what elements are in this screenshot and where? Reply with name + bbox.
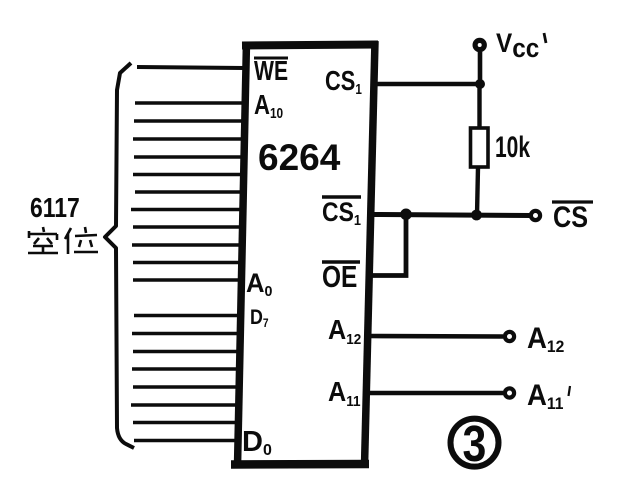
wire bus D4 — [132, 367, 240, 371]
wire A11 — [369, 391, 503, 396]
junction dot CS1/resistor top node — [475, 79, 485, 89]
pin label WE (overline) — [254, 56, 288, 86]
label empty-slot (Chinese 空位) — [28, 227, 98, 254]
wire bus A9 — [134, 119, 244, 123]
wire bus D6 — [132, 332, 241, 336]
wire bus A1 — [133, 261, 242, 265]
IC U1 6264 body fill — [238, 45, 375, 464]
figure number 3 (circled) — [451, 414, 499, 471]
wire bus A0 — [133, 278, 241, 282]
svg-text:Vcc: Vcc — [496, 29, 539, 63]
terminal CS-bar circle — [531, 211, 540, 220]
IC U1 top edge — [242, 45, 378, 46]
wire bus A8 — [133, 137, 243, 141]
svg-text:6117: 6117 — [30, 193, 80, 224]
wire bus D3 — [133, 385, 240, 389]
resistor R 10k lead bottom — [477, 167, 478, 215]
wire bus A10 — [135, 101, 244, 105]
wire bus D1 — [133, 421, 239, 425]
IC U1 left edge — [238, 42, 247, 466]
junction dot resistor bottom — [471, 210, 482, 221]
svg-text:CS: CS — [553, 200, 588, 234]
wire bus WE — [137, 67, 244, 68]
resistor R 10k lead top — [477, 84, 481, 128]
brace for 6117 empty slot — [105, 63, 134, 448]
stray mark artifact right of A11 — [569, 386, 571, 396]
wire CS1-bar pin to CS-bar terminal — [374, 215, 531, 216]
svg-text:6264: 6264 — [258, 137, 341, 178]
pin label OE-bar — [322, 259, 360, 293]
svg-text:10k: 10k — [495, 132, 531, 164]
power terminal Vcc circle — [475, 40, 484, 49]
wire bus A2 — [132, 243, 242, 247]
wire bus D5 — [133, 350, 240, 354]
wire A12 — [369, 334, 503, 339]
wire bus A6 — [133, 173, 243, 177]
wire bus D2 — [131, 403, 240, 407]
wire bus A3 — [133, 225, 242, 229]
svg-text:OE: OE — [322, 259, 357, 293]
terminal A11 circle — [505, 388, 514, 397]
terminal A12 circle — [505, 332, 514, 341]
wire CS1 pin to Vcc/resistor node — [375, 82, 480, 87]
IC U1 bottom edge — [231, 460, 369, 469]
resistor R 10k body — [471, 128, 489, 167]
pin label CS1-bar — [322, 197, 361, 228]
label CS-bar — [552, 200, 593, 234]
wire bus A5 — [135, 190, 243, 194]
svg-text:WE: WE — [254, 56, 288, 86]
svg-text:3: 3 — [463, 414, 487, 471]
wire bus A7 — [134, 155, 243, 159]
wire bus D0 — [134, 439, 239, 443]
IC U1 right edge — [365, 41, 376, 466]
junction dot OE branch — [400, 209, 412, 221]
wire bus D7 — [134, 314, 241, 318]
wire bus A4 — [131, 208, 242, 212]
prime tick after Vcc — [544, 33, 546, 43]
wire OE-bar branch (up to CS-bar net) — [371, 214, 406, 276]
wire node to Vcc terminal — [478, 52, 483, 84]
